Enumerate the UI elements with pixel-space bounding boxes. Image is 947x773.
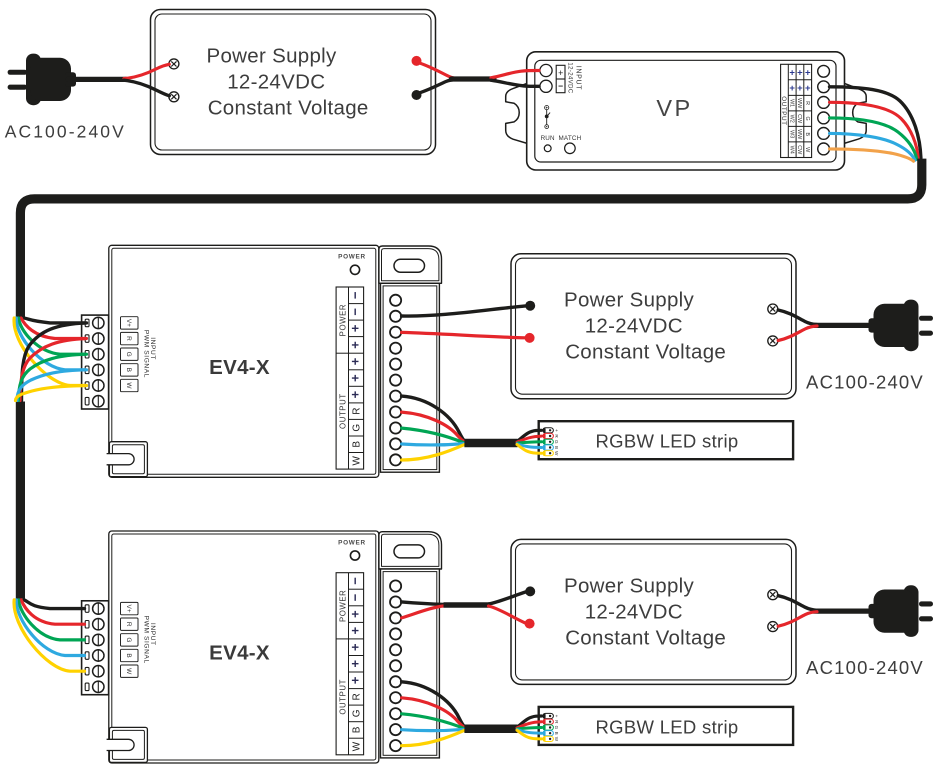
power supply PSU2 AC terminal N	[768, 622, 778, 632]
svg-text:+: +	[789, 67, 795, 78]
AC plug P1	[8, 54, 76, 106]
controller EV4-X 2 mounting tab bottom-left	[107, 727, 148, 762]
svg-text:R: R	[125, 336, 132, 341]
trunk cable segment 2 (EV4-X 1 to EV4-X 2)	[16, 402, 25, 599]
power supply PSU1 label	[207, 45, 369, 120]
power supply PSU1 AC terminal L	[169, 59, 179, 69]
svg-text:W: W	[125, 382, 132, 389]
controller VP learn-key symbol	[545, 106, 550, 129]
LED strip 2 pad R	[543, 719, 559, 724]
wire red EV4-X 2 power to cord	[402, 606, 444, 618]
svg-text:G: G	[554, 440, 559, 444]
svg-text:W4: W4	[788, 146, 794, 154]
svg-text:Power Supply: Power Supply	[207, 45, 338, 68]
wire red PSU2 AC-N to cord	[778, 612, 817, 627]
wire blue sheath to strip1 B	[517, 444, 542, 448]
svg-text:W2: W2	[788, 115, 794, 123]
wire blue EV4-X 1 OUT B to strip	[402, 444, 465, 445]
svg-text:V+: V+	[125, 319, 132, 327]
controller VP input polarity box	[556, 65, 565, 92]
svg-text:B: B	[554, 446, 559, 449]
wire blue VP OUT to trunk	[830, 133, 916, 160]
power supply PSU1 DC terminal V-	[525, 301, 535, 311]
power supply PSU1 DC terminal V+	[412, 56, 422, 66]
wire red PSU1 AC-N to cord	[778, 326, 817, 341]
wire red trunk to EV4-X 2 input (from above)	[21, 600, 85, 624]
wire blue EV4-X 1 input to trunk (daisy chain down)	[17, 370, 87, 401]
wire yellow trunk to EV4-X 1 input (from above)	[14, 318, 84, 386]
wire red sheath to strip1 R	[517, 436, 542, 442]
svg-text:W: W	[352, 741, 363, 751]
AC cord of plug P1	[814, 323, 870, 328]
svg-text:POWER: POWER	[338, 304, 347, 336]
controller EV4-X 1 case	[109, 245, 379, 477]
wire yellow sheath to strip1 W	[517, 445, 542, 454]
svg-text:CW: CW	[796, 145, 802, 155]
wire red cord to VP V+	[491, 70, 539, 77]
LED strip 2 body	[539, 707, 793, 745]
wire green EV4-X 2 OUT G to strip	[402, 714, 465, 729]
svg-text:+: +	[348, 390, 363, 398]
svg-text:B: B	[804, 132, 810, 136]
wire black cord to PSU1 AC-N	[124, 80, 169, 96]
svg-text:+: +	[348, 324, 363, 332]
svg-text:−: −	[558, 81, 563, 91]
svg-text:+: +	[348, 626, 363, 634]
AC cord of plug P2	[814, 608, 870, 613]
wire green VP OUT to trunk	[830, 118, 917, 159]
svg-text:+: +	[554, 429, 559, 432]
svg-text:+: +	[805, 83, 811, 94]
svg-text:EV4-X: EV4-X	[209, 356, 270, 379]
wire black EV4-X 1 input to trunk (daisy chain down)	[22, 323, 87, 401]
controller VP input screw terminals	[540, 64, 552, 92]
svg-text:RUN: RUN	[541, 135, 555, 142]
svg-text:+: +	[797, 67, 803, 78]
svg-text:OUTPUT: OUTPUT	[338, 679, 347, 715]
svg-text:−: −	[348, 308, 363, 316]
wire yellow sheath to strip2 W	[517, 730, 542, 739]
wire black VP OUT to trunk	[830, 87, 921, 158]
AC plug P1	[869, 300, 934, 352]
controller EV4-X 1 output connector screws	[390, 295, 401, 466]
controller EV4-X 2 mounting ear top-right	[379, 532, 442, 569]
svg-text:WW: WW	[796, 98, 802, 109]
svg-text:AC100-240V: AC100-240V	[806, 657, 924, 678]
svg-text:OUTPUT: OUTPUT	[338, 393, 347, 429]
svg-text:PWM SIGNAL: PWM SIGNAL	[142, 330, 149, 378]
controller EV4-X 1 mounting ear top-right	[379, 246, 442, 283]
svg-text:B: B	[125, 368, 132, 372]
svg-text:12-24VDC: 12-24VDC	[585, 315, 683, 338]
svg-text:+: +	[797, 83, 803, 94]
svg-text:+: +	[789, 83, 795, 94]
controller EV4-X 1 input connector block	[82, 315, 109, 409]
svg-text:W: W	[125, 668, 132, 675]
wire red EV4-X 1 power to PSU1 V+	[402, 332, 525, 337]
controller EV4-X 2 terminal labels	[348, 577, 363, 751]
svg-text:G: G	[352, 709, 363, 717]
svg-text:+: +	[554, 715, 559, 718]
wire blue sheath to strip2 B	[517, 730, 542, 734]
controller EV4-X 1 mounting tab bottom-left	[107, 442, 148, 477]
svg-text:Constant Voltage: Constant Voltage	[565, 626, 726, 649]
svg-text:G: G	[125, 637, 132, 642]
svg-text:WW: WW	[796, 129, 802, 140]
cable sheath EV4-X 2 to strip	[464, 724, 517, 733]
wire yellow trunk to EV4-X 2 input (from above)	[14, 600, 84, 671]
svg-text:POWER: POWER	[338, 539, 366, 546]
svg-text:B: B	[125, 653, 132, 657]
controller EV4-X 2 output connector screws	[390, 580, 401, 751]
power supply PSU1 case	[151, 10, 436, 155]
svg-text:MATCH: MATCH	[558, 135, 581, 142]
wire black cord to PSU2 V-	[489, 592, 526, 604]
power cord EV4-X 2 to PSU2	[444, 602, 490, 608]
power supply PSU1 AC terminal N	[169, 92, 179, 102]
svg-text:OUTPUT: OUTPUT	[780, 96, 787, 125]
wire red PSU1 V+ to VP cord	[417, 62, 457, 78]
controller EV4-X 1 POWER indicator	[338, 254, 366, 275]
power supply PSU2 label	[564, 574, 726, 649]
svg-text:Constant Voltage: Constant Voltage	[565, 341, 726, 364]
svg-text:W1: W1	[788, 99, 794, 107]
svg-text:+: +	[348, 341, 363, 349]
svg-text:Power Supply: Power Supply	[564, 574, 695, 597]
LED strip 1 pad +	[543, 428, 559, 433]
wire black cord to VP V-	[491, 80, 539, 86]
wire red cord to PSU1 AC-L	[124, 64, 169, 78]
AC cord of plug P1	[68, 77, 126, 82]
controller EV4-X 2 output connector block	[381, 569, 440, 758]
controller EV4-X 1 terminal labels	[348, 291, 363, 465]
svg-text:12-24VDC: 12-24VDC	[585, 600, 683, 623]
svg-text:AC100-240V: AC100-240V	[5, 121, 126, 141]
wire black PSU1 AC-L to cord	[778, 310, 817, 325]
wire red cord to PSU2 V+	[489, 606, 526, 623]
controller VP case	[527, 52, 845, 170]
wire red sheath to strip2 R	[517, 722, 542, 728]
wire blue trunk to EV4-X 2 input (from above)	[16, 600, 84, 656]
wire red EV4-X 1 input to trunk (daisy chain down)	[20, 339, 87, 401]
LED strip 1 pad G	[543, 439, 559, 444]
svg-text:+: +	[805, 67, 811, 78]
svg-text:+: +	[348, 676, 363, 684]
svg-text:VP: VP	[656, 95, 692, 121]
wire blue EV4-X 2 OUT B to strip	[402, 729, 465, 730]
svg-text:EV4-X: EV4-X	[209, 642, 270, 665]
power supply PSU2 DC terminal V-	[525, 586, 535, 596]
wire black PSU1 V- to VP cord	[417, 80, 457, 94]
svg-text:B: B	[352, 726, 363, 733]
svg-text:R: R	[804, 101, 810, 105]
power supply PSU1 case	[511, 254, 796, 399]
controller EV4-X 2 input connector block	[82, 601, 109, 695]
LED strip 1 pad W	[543, 451, 559, 456]
svg-text:−: −	[348, 593, 363, 601]
controller EV4-X 2 case	[109, 531, 379, 763]
svg-text:−: −	[348, 577, 363, 585]
LED strip 1 pad B	[543, 445, 559, 450]
svg-text:W3: W3	[788, 130, 794, 138]
controller VP output table grid	[781, 64, 812, 157]
LED strip 2 pad G	[543, 725, 559, 730]
power supply PSU1 AC terminal L	[768, 304, 778, 314]
svg-text:POWER: POWER	[338, 254, 366, 261]
svg-text:+: +	[348, 660, 363, 668]
power supply PSU1 AC terminal N	[768, 336, 778, 346]
controller EV4-X 1 terminal strip grid	[336, 287, 364, 469]
controller VP MATCH button	[558, 135, 581, 154]
svg-text:G: G	[125, 352, 132, 357]
svg-text:W: W	[554, 451, 559, 456]
svg-text:−: −	[348, 291, 363, 299]
svg-text:+: +	[348, 357, 363, 365]
wire green EV4-X 1 OUT G to strip	[402, 428, 465, 443]
controller EV4-X 2 input channel labels	[121, 602, 139, 677]
cable sheath EV4-X 1 to strip	[464, 439, 517, 448]
power supply PSU2 AC terminal L	[768, 590, 778, 600]
LED strip 2 pad B	[543, 731, 559, 736]
controller EV4-X 2 label INPUT PWM SIGNAL	[142, 616, 156, 664]
svg-text:B: B	[554, 732, 559, 735]
svg-text:B: B	[352, 441, 363, 448]
wire black PSU2 AC-L to cord	[778, 596, 817, 611]
svg-text:INPUT: INPUT	[149, 337, 156, 360]
wire green sheath to strip1 G	[518, 442, 542, 443]
cord PSU1 to VP	[451, 76, 494, 81]
svg-text:PWM SIGNAL: PWM SIGNAL	[142, 616, 149, 664]
controller EV4-X 2 terminal strip grid	[336, 573, 364, 755]
LED strip 1 pad R	[543, 433, 559, 438]
power supply PSU2 DC terminal V+	[525, 619, 535, 629]
LED strip 2 pad +	[543, 713, 559, 718]
power supply PSU1 label	[564, 289, 726, 364]
controller VP output screw terminals	[818, 65, 830, 154]
wire orange VP OUT to trunk	[830, 149, 914, 161]
svg-text:V+: V+	[125, 605, 132, 613]
svg-text:POWER: POWER	[338, 590, 347, 622]
trunk cable segment 1 (VP to EV4-X 1)	[20, 159, 921, 317]
wire yellow EV4-X 1 OUT W to strip	[402, 445, 465, 460]
LED strip 1 body	[539, 421, 793, 459]
wire green sheath to strip2 G	[518, 728, 542, 729]
wire red trunk to EV4-X 1 input (from above)	[21, 318, 85, 339]
power supply PSU1 DC terminal V+	[525, 333, 535, 343]
svg-text:CW: CW	[796, 114, 802, 124]
wire green EV4-X 1 input to trunk (daisy chain down)	[19, 354, 87, 400]
svg-text:Power Supply: Power Supply	[564, 289, 695, 312]
controller EV4-X 1 label INPUT PWM SIGNAL	[142, 330, 156, 378]
svg-text:12-24VDC: 12-24VDC	[566, 62, 572, 93]
power supply PSU2 case	[511, 539, 796, 684]
wire black sheath to strip1 +	[517, 430, 542, 441]
wire yellow EV4-X 1 input to trunk (daisy chain down)	[16, 386, 87, 401]
svg-text:12-24VDC: 12-24VDC	[227, 71, 325, 94]
svg-text:R: R	[125, 622, 132, 627]
wire red EV4-X 2 OUT R to strip	[402, 698, 465, 728]
svg-text:INPUT: INPUT	[574, 66, 581, 91]
svg-text:RGBW LED strip: RGBW LED strip	[596, 431, 739, 452]
controller EV4-X 2 input connector screws	[85, 603, 104, 693]
wire black trunk to EV4-X 2 input (from above)	[24, 600, 85, 609]
wire blue trunk to EV4-X 1 input (from above)	[16, 318, 84, 370]
wire yellow EV4-X 2 OUT W to strip	[402, 730, 465, 745]
wire red EV4-X 1 OUT R to strip	[402, 412, 465, 442]
svg-text:G: G	[554, 726, 559, 730]
wire black trunk to EV4-X 1 input (from above)	[24, 318, 85, 323]
wire red VP OUT to trunk	[830, 102, 919, 158]
power supply PSU1 DC terminal V-	[412, 90, 422, 100]
svg-text:Constant Voltage: Constant Voltage	[208, 97, 369, 120]
LED strip 2 pad W	[543, 736, 559, 741]
wire black EV4-X 2 OUT+ to strip	[402, 682, 465, 727]
svg-text:RGBW LED strip: RGBW LED strip	[596, 716, 739, 737]
controller VP label INPUT 12-24VDC	[566, 62, 581, 93]
controller VP mounting ear left	[506, 83, 528, 143]
wire black EV4-X 2 power to cord	[402, 602, 444, 605]
svg-text:W: W	[352, 456, 363, 466]
controller VP RUN indicator	[541, 135, 555, 152]
svg-text:R: R	[352, 693, 363, 700]
svg-text:W: W	[554, 737, 559, 742]
svg-text:INPUT: INPUT	[149, 623, 156, 646]
wire black EV4-X 1 power to PSU1 V-	[402, 306, 526, 316]
controller VP mounting ear right	[844, 83, 866, 143]
svg-text:+: +	[348, 374, 363, 382]
controller EV4-X 1 output connector block	[381, 283, 440, 472]
controller EV4-X 1 input channel labels	[121, 317, 139, 392]
wire black EV4-X 1 OUT+ to strip	[402, 396, 465, 441]
wire green trunk to EV4-X 2 input (from above)	[19, 600, 85, 640]
svg-text:R: R	[352, 408, 363, 415]
controller EV4-X 1 input connector screws	[85, 317, 104, 407]
controller VP output channel labels	[788, 67, 811, 155]
AC plug P2	[869, 585, 934, 637]
svg-text:G: G	[352, 424, 363, 432]
svg-text:+: +	[348, 610, 363, 618]
svg-text:G: G	[804, 117, 810, 121]
wire black sheath to strip2 +	[517, 716, 542, 727]
wire green trunk to EV4-X 1 input (from above)	[19, 318, 85, 354]
svg-text:+: +	[348, 643, 363, 651]
svg-text:AC100-240V: AC100-240V	[806, 372, 924, 393]
svg-text:+: +	[558, 68, 563, 78]
controller EV4-X 2 POWER indicator	[338, 539, 366, 560]
